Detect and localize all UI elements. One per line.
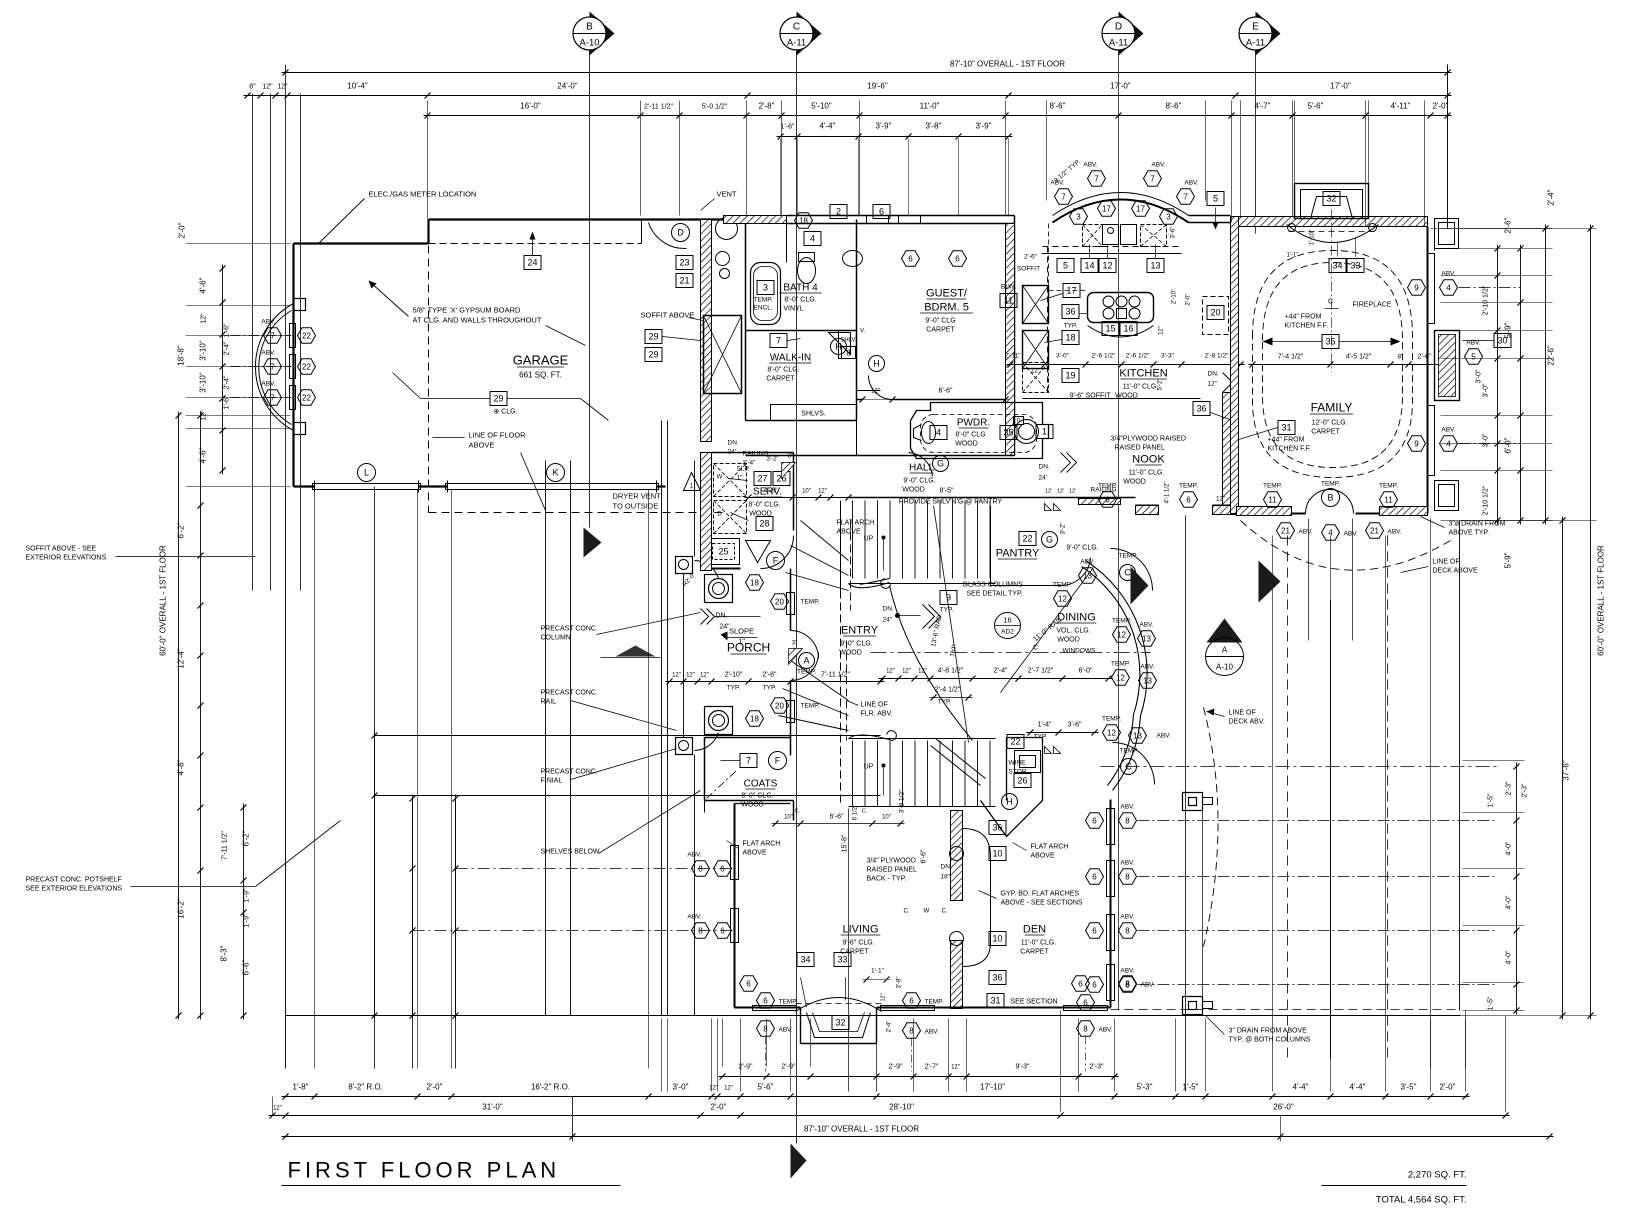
svg-text:35: 35 bbox=[1003, 428, 1013, 438]
stair rail curl upper bbox=[849, 579, 891, 589]
svg-text:ABV.: ABV. bbox=[1466, 340, 1480, 347]
svg-text:V.: V. bbox=[860, 329, 865, 335]
svg-text:TEMP.: TEMP. bbox=[1321, 481, 1340, 488]
svg-text:10: 10 bbox=[992, 934, 1002, 944]
svg-text:6'-6": 6'-6" bbox=[242, 959, 251, 975]
svg-text:12": 12" bbox=[902, 669, 911, 675]
svg-text:TEMP.: TEMP. bbox=[754, 297, 773, 304]
svg-text:C: C bbox=[793, 22, 800, 33]
guest bottom wall bbox=[857, 399, 863, 401]
svg-text:GUEST/: GUEST/ bbox=[926, 288, 968, 300]
svg-text:WOOD: WOOD bbox=[1123, 479, 1146, 486]
boxes 25 bbox=[708, 539, 740, 565]
svg-text:2'-4 1/2": 2'-4 1/2" bbox=[935, 687, 961, 694]
svg-text:3'-5": 3'-5" bbox=[1401, 1083, 1417, 1092]
svg-text:SHLV.: SHLV. bbox=[840, 338, 857, 344]
svg-text:FIRST FLOOR PLAN: FIRST FLOOR PLAN bbox=[288, 1158, 561, 1183]
svg-text:CARPET: CARPET bbox=[1020, 949, 1049, 956]
svg-text:TYP. @ BOTH COLUMNS: TYP. @ BOTH COLUMNS bbox=[1229, 1037, 1311, 1044]
svg-text:12': 12' bbox=[1069, 489, 1076, 495]
svg-text:12": 12" bbox=[273, 1106, 282, 1112]
svg-text:WOOD: WOOD bbox=[741, 802, 764, 809]
door D top bbox=[672, 224, 690, 242]
windows centerline bbox=[871, 652, 1151, 654]
svg-text:KITCHEN F.F.: KITCHEN F.F. bbox=[1285, 323, 1329, 330]
svg-text:4'-0": 4'-0" bbox=[1506, 841, 1513, 855]
svg-text:8: 8 bbox=[763, 1024, 768, 1033]
svg-text:C.: C. bbox=[862, 809, 868, 815]
svg-text:F: F bbox=[775, 756, 781, 766]
nook hexes bbox=[1099, 492, 1117, 508]
svg-text:ABV.: ABV. bbox=[687, 914, 701, 921]
svg-text:ABV.: ABV. bbox=[1344, 531, 1358, 538]
svg-text:12': 12' bbox=[1057, 489, 1064, 495]
den bottom wall bbox=[951, 1007, 1111, 1009]
svg-text:C: C bbox=[1328, 299, 1333, 306]
svg-text:LIVING: LIVING bbox=[842, 924, 878, 936]
svg-text:6: 6 bbox=[1092, 980, 1097, 989]
grid line D bbox=[1118, 50, 1120, 1011]
svg-text:C: C bbox=[1033, 645, 1038, 652]
svg-text:TEMP.: TEMP. bbox=[1263, 483, 1282, 490]
svg-text:5'-3": 5'-3" bbox=[1137, 1083, 1153, 1092]
svg-text:11: 11 bbox=[1004, 296, 1013, 306]
svg-text:PWDR.: PWDR. bbox=[957, 418, 990, 429]
svg-text:C.: C. bbox=[795, 809, 801, 815]
svg-text:8": 8" bbox=[249, 84, 256, 91]
svg-text:29: 29 bbox=[493, 394, 503, 404]
den arches bbox=[963, 829, 991, 967]
kitchen island bbox=[1088, 293, 1154, 323]
pantry walls bbox=[849, 497, 1136, 499]
svg-text:12": 12" bbox=[871, 389, 880, 395]
svg-text:16'-2" R.O.: 16'-2" R.O. bbox=[531, 1083, 570, 1092]
svg-text:UP: UP bbox=[864, 764, 874, 771]
svg-text:25: 25 bbox=[718, 547, 728, 557]
svg-text:ABV.: ABV. bbox=[1120, 804, 1134, 811]
svg-text:12": 12" bbox=[700, 673, 709, 679]
serv walls hatched bbox=[701, 453, 712, 571]
deck vertical lines right bbox=[1185, 516, 1187, 1092]
svg-text:PROVIDE SHLV'N'G @ PANTRY: PROVIDE SHLV'N'G @ PANTRY bbox=[899, 499, 1002, 506]
svg-text:12": 12" bbox=[1208, 381, 1218, 388]
svg-text:12": 12" bbox=[951, 1065, 960, 1071]
svg-text:RAIL: RAIL bbox=[541, 699, 557, 706]
dining hexes bbox=[1113, 627, 1131, 643]
svg-text:18: 18 bbox=[750, 578, 759, 587]
svg-text:6: 6 bbox=[1186, 495, 1191, 504]
pwdr enclosure bbox=[911, 403, 1049, 459]
fireplace hearth arc bbox=[1287, 225, 1379, 243]
svg-text:12: 12 bbox=[1102, 261, 1112, 271]
svg-text:3'-2": 3'-2" bbox=[1061, 523, 1067, 535]
svg-text:TYP.: TYP. bbox=[1064, 323, 1078, 330]
svg-text:4: 4 bbox=[936, 428, 941, 438]
svg-text:1'-8": 1'-8" bbox=[293, 1083, 309, 1092]
black triangle right of dining bbox=[1259, 561, 1281, 603]
svg-text:G: G bbox=[1046, 535, 1053, 545]
svg-text:FAMILY: FAMILY bbox=[1311, 401, 1353, 415]
svg-text:13: 13 bbox=[1142, 634, 1151, 643]
svg-text:18: 18 bbox=[1065, 333, 1075, 343]
svg-text:TEMP.: TEMP. bbox=[779, 999, 798, 1006]
svg-text:FLR. ABV.: FLR. ABV. bbox=[861, 711, 893, 718]
svg-text:W: W bbox=[717, 475, 723, 481]
svg-text:ABV.: ABV. bbox=[1140, 664, 1154, 671]
svg-text:4'-4": 4'-4" bbox=[1350, 1083, 1366, 1092]
below family hexes bbox=[1277, 523, 1295, 539]
svg-text:3'-8 1/2": 3'-8 1/2" bbox=[899, 789, 906, 813]
svg-text:3": 3" bbox=[788, 454, 793, 460]
svg-text:5'-2": 5'-2" bbox=[1158, 379, 1164, 391]
svg-text:ABV.: ABV. bbox=[1157, 733, 1171, 740]
svg-text:8'-5": 8'-5" bbox=[940, 488, 954, 495]
svg-text:8: 8 bbox=[1125, 979, 1130, 988]
kitchen lower counter bbox=[1023, 398, 1201, 400]
svg-text:13: 13 bbox=[1150, 261, 1160, 271]
svg-text:K: K bbox=[552, 468, 558, 478]
svg-text:1'-9": 1'-9" bbox=[244, 913, 251, 927]
svg-text:B: B bbox=[1327, 493, 1333, 503]
walkin bbox=[770, 334, 787, 348]
svg-text:9'-0" CLG: 9'-0" CLG bbox=[925, 318, 955, 325]
svg-text:22: 22 bbox=[302, 331, 311, 340]
svg-text:23: 23 bbox=[679, 258, 689, 268]
svg-text:19'-6": 19'-6" bbox=[867, 82, 888, 91]
svg-text:12": 12" bbox=[1216, 497, 1225, 503]
svg-text:36: 36 bbox=[1065, 307, 1075, 317]
svg-text:7: 7 bbox=[270, 362, 275, 371]
garage right wall hatched bbox=[701, 220, 712, 442]
svg-text:ABV.: ABV. bbox=[1151, 162, 1165, 169]
svg-text:36: 36 bbox=[1196, 404, 1206, 414]
svg-text:6'-6": 6'-6" bbox=[830, 814, 844, 821]
svg-text:6'-0": 6'-0" bbox=[1504, 437, 1513, 453]
svg-text:1: 1 bbox=[1042, 427, 1047, 437]
svg-text:2'-10 1/2": 2'-10 1/2" bbox=[1483, 485, 1490, 515]
potshelf hexes bbox=[231, 335, 292, 337]
svg-text:2'-4": 2'-4" bbox=[994, 668, 1008, 675]
svg-text:6: 6 bbox=[1092, 872, 1097, 881]
svg-text:8: 8 bbox=[698, 926, 703, 935]
svg-text:4'-8 1/2": 4'-8 1/2" bbox=[938, 668, 964, 675]
svg-text:TEMP.: TEMP. bbox=[797, 669, 816, 676]
svg-text:8'-0" CLG.: 8'-0" CLG. bbox=[741, 793, 773, 800]
svg-text:3" DRAIN FROM ABOVE: 3" DRAIN FROM ABOVE bbox=[1229, 1028, 1308, 1035]
svg-text:KITCHEN: KITCHEN bbox=[1119, 368, 1167, 380]
hatch wedge 3in bbox=[789, 649, 803, 665]
svg-text:WALK-IN: WALK-IN bbox=[770, 353, 811, 364]
svg-text:WOOD: WOOD bbox=[839, 650, 862, 657]
svg-text:60'-0" OVERALL - 1ST FLOOR: 60'-0" OVERALL - 1ST FLOOR bbox=[159, 545, 168, 656]
door F serv bbox=[761, 536, 794, 569]
svg-text:2'-8": 2'-8" bbox=[763, 672, 777, 679]
svg-text:ABV.: ABV. bbox=[1441, 271, 1455, 278]
pantry door bbox=[1061, 558, 1091, 586]
svg-text:17'-0": 17'-0" bbox=[1110, 82, 1131, 91]
svg-text:24": 24" bbox=[883, 617, 893, 624]
svg-text:7: 7 bbox=[1150, 174, 1155, 183]
svg-text:3'-10": 3'-10" bbox=[199, 340, 208, 361]
svg-text:ABV.: ABV. bbox=[1139, 622, 1153, 629]
svg-text:3'-10": 3'-10" bbox=[199, 372, 208, 393]
section cut triangle porch bbox=[616, 646, 656, 657]
svg-text:17'-10": 17'-10" bbox=[980, 1083, 1005, 1092]
svg-text:10": 10" bbox=[802, 489, 811, 495]
svg-text:FINIAL: FINIAL bbox=[541, 778, 563, 785]
black triangle near dining deck bbox=[1131, 567, 1149, 605]
svg-text:6 1/2": 6 1/2" bbox=[853, 805, 859, 820]
svg-text:2'-7": 2'-7" bbox=[925, 1064, 939, 1071]
svg-text:8'-6": 8'-6" bbox=[1050, 102, 1066, 111]
svg-text:1'-10": 1'-10" bbox=[1310, 230, 1316, 245]
svg-text:22'-6": 22'-6" bbox=[1547, 345, 1556, 366]
stair diagonal rails bbox=[931, 746, 981, 786]
svg-text:KITCHEN F.F.: KITCHEN F.F. bbox=[1268, 446, 1312, 453]
svg-text:24': 24' bbox=[728, 449, 736, 456]
svg-text:ABV.: ABV. bbox=[1441, 427, 1455, 434]
svg-text:DN.: DN. bbox=[941, 864, 952, 871]
svg-text:SEE EXTERIOR ELEVATIONS: SEE EXTERIOR ELEVATIONS bbox=[26, 886, 123, 893]
svg-text:ABV.: ABV. bbox=[1083, 162, 1097, 169]
svg-text:A: A bbox=[803, 656, 809, 666]
svg-text:LINE OF FLOOR: LINE OF FLOOR bbox=[469, 431, 527, 440]
svg-text:GARAGE: GARAGE bbox=[513, 353, 569, 368]
svg-text:BACK - TYP.: BACK - TYP. bbox=[867, 876, 907, 883]
svg-text:SLOPE: SLOPE bbox=[729, 627, 754, 636]
svg-text:11'-0": 11'-0" bbox=[920, 102, 940, 111]
svg-text:2'-6": 2'-6" bbox=[1504, 217, 1513, 233]
svg-text:ABOVE: ABOVE bbox=[1031, 853, 1055, 860]
svg-text:ABV.: ABV. bbox=[1120, 860, 1134, 867]
svg-text:20: 20 bbox=[775, 701, 784, 710]
bottom extension verticals 2 bbox=[285, 487, 287, 1069]
svg-text:5'-6": 5'-6" bbox=[758, 1083, 774, 1092]
svg-text:AT CLG. AND WALLS THROUGHOUT: AT CLG. AND WALLS THROUGHOUT bbox=[413, 316, 542, 325]
svg-text:TEMP.: TEMP. bbox=[1053, 582, 1072, 589]
svg-text:20: 20 bbox=[1210, 308, 1220, 318]
svg-text:12: 12 bbox=[1116, 673, 1125, 682]
garage walls bbox=[292, 244, 294, 487]
svg-text:D: D bbox=[677, 228, 684, 238]
bath walls bbox=[745, 224, 747, 421]
svg-text:2'-3": 2'-3" bbox=[1506, 781, 1513, 795]
svg-text:GYP. BD. FLAT ARCHES: GYP. BD. FLAT ARCHES bbox=[1001, 891, 1080, 898]
svg-text:4'-4": 4'-4" bbox=[1293, 1083, 1309, 1092]
svg-text:2'-4": 2'-4" bbox=[887, 1021, 893, 1033]
svg-text:2'-3": 2'-3" bbox=[1090, 1064, 1104, 1071]
svg-text:3": 3" bbox=[792, 641, 797, 647]
svg-text:16: 16 bbox=[1123, 324, 1133, 334]
svg-text:C.: C. bbox=[904, 909, 910, 915]
svg-text:FLAT ARCH: FLAT ARCH bbox=[1031, 844, 1069, 851]
svg-text:A-11: A-11 bbox=[1246, 38, 1265, 49]
svg-text:12': 12' bbox=[1045, 489, 1052, 495]
family right bay bbox=[1435, 331, 1460, 401]
svg-text:2'-0": 2'-0" bbox=[427, 1083, 443, 1092]
svg-text:12'-0" CLG.: 12'-0" CLG. bbox=[1311, 420, 1347, 427]
svg-text:6: 6 bbox=[720, 864, 725, 873]
svg-text:3'-6": 3'-6" bbox=[1068, 722, 1082, 729]
svg-text:36: 36 bbox=[992, 973, 1002, 983]
svg-text:6: 6 bbox=[908, 254, 913, 263]
svg-text:31'-0": 31'-0" bbox=[482, 1103, 503, 1112]
svg-text:WOOD: WOOD bbox=[955, 441, 978, 448]
svg-text:1'-5": 1'-5" bbox=[1488, 996, 1495, 1010]
svg-text:TO OUTSIDE: TO OUTSIDE bbox=[613, 502, 659, 511]
svg-text:33: 33 bbox=[837, 955, 847, 965]
svg-text:SEE DETAIL TYP.: SEE DETAIL TYP. bbox=[967, 591, 1023, 598]
living bottom wall bbox=[735, 1007, 801, 1009]
svg-text:2'-0": 2'-0" bbox=[1440, 1083, 1456, 1092]
svg-text:12": 12" bbox=[724, 1086, 733, 1092]
svg-text:BDRM. 5: BDRM. 5 bbox=[924, 302, 969, 314]
svg-text:NOOK: NOOK bbox=[1132, 454, 1165, 466]
svg-text:ABOVE TYP.: ABOVE TYP. bbox=[1449, 530, 1490, 537]
svg-text:11'-0" CLG.: 11'-0" CLG. bbox=[1129, 470, 1165, 477]
svg-text:ENTRY: ENTRY bbox=[841, 625, 879, 637]
svg-text:4'-6": 4'-6" bbox=[764, 488, 778, 495]
svg-text:16'-0": 16'-0" bbox=[520, 102, 541, 111]
svg-text:A: A bbox=[1222, 646, 1228, 655]
svg-text:18": 18" bbox=[941, 874, 951, 881]
svg-text:3'-8": 3'-8" bbox=[926, 122, 942, 131]
svg-text:6'-6": 6'-6" bbox=[921, 849, 928, 863]
svg-text:30: 30 bbox=[1497, 336, 1507, 346]
svg-text:87'-10" OVERALL - 1ST FLOOR: 87'-10" OVERALL - 1ST FLOOR bbox=[804, 1125, 919, 1134]
svg-text:12": 12" bbox=[277, 84, 288, 91]
svg-text:24: 24 bbox=[527, 258, 537, 268]
svg-text:3: 3 bbox=[1076, 212, 1081, 221]
dining curved wall bbox=[1086, 561, 1148, 791]
svg-text:DN.: DN. bbox=[715, 613, 727, 620]
svg-text:2'-10": 2'-10" bbox=[1172, 289, 1178, 304]
svg-text:LINE OF: LINE OF bbox=[1229, 710, 1256, 717]
kitchen box row bbox=[1057, 259, 1074, 273]
svg-text:LINE OF: LINE OF bbox=[861, 702, 888, 709]
svg-text:6'-2": 6'-2" bbox=[177, 522, 186, 538]
svg-text:2'-10": 2'-10" bbox=[725, 672, 743, 679]
svg-text:2,270 SQ. FT.: 2,270 SQ. FT. bbox=[1408, 1170, 1467, 1181]
svg-text:ABV.: ABV. bbox=[261, 381, 275, 388]
svg-text:C: C bbox=[1124, 568, 1131, 578]
svg-text:17: 17 bbox=[1102, 204, 1111, 213]
svg-text:CARPET: CARPET bbox=[926, 327, 955, 334]
svg-text:W: W bbox=[924, 909, 930, 915]
svg-text:11: 11 bbox=[1384, 495, 1393, 504]
svg-text:4'-0": 4'-0" bbox=[1506, 895, 1513, 909]
svg-text:3'-0": 3'-0" bbox=[1056, 353, 1070, 360]
svg-text:15'-8": 15'-8" bbox=[842, 834, 849, 852]
svg-text:RAISED PANEL: RAISED PANEL bbox=[867, 867, 918, 874]
svg-text:6: 6 bbox=[1092, 816, 1097, 825]
svg-text:ABV.: ABV. bbox=[1120, 968, 1134, 975]
svg-text:1'-1": 1'-1" bbox=[871, 968, 885, 975]
svg-text:12": 12" bbox=[672, 673, 681, 679]
wine storage bbox=[1006, 738, 1008, 801]
svg-text:ABV.: ABV. bbox=[925, 1029, 939, 1036]
svg-text:2'-3": 2'-3" bbox=[1522, 783, 1529, 797]
dining radial lines bbox=[1001, 568, 1094, 693]
svg-text:2'-6": 2'-6" bbox=[1418, 354, 1432, 361]
svg-text:18: 18 bbox=[799, 216, 808, 225]
svg-text:ABV.: ABV. bbox=[261, 350, 275, 357]
svg-text:ABV.: ABV. bbox=[261, 319, 275, 326]
svg-text:ABOVE: ABOVE bbox=[469, 441, 495, 450]
svg-text:8: 8 bbox=[1125, 816, 1130, 825]
grid marker E / A-11 bbox=[1256, 12, 1281, 56]
svg-text:ABOVE: ABOVE bbox=[743, 850, 767, 857]
svg-text:2'-0": 2'-0" bbox=[711, 1103, 727, 1112]
svg-text:3"ø DRAIN FROM: 3"ø DRAIN FROM bbox=[1449, 521, 1506, 528]
kitchen soffit dashed bbox=[1043, 246, 1182, 248]
svg-text:BLW.: BLW. bbox=[1001, 284, 1016, 291]
den wall center hatched bbox=[951, 811, 963, 901]
svg-text:CARPET: CARPET bbox=[766, 376, 795, 383]
svg-text:13: 13 bbox=[1143, 676, 1152, 685]
svg-text:87'-10" OVERALL - 1ST FLOOR: 87'-10" OVERALL - 1ST FLOOR bbox=[950, 60, 1065, 69]
svg-text:22: 22 bbox=[302, 393, 311, 402]
svg-text:8'-3": 8'-3" bbox=[220, 945, 229, 961]
svg-text:9'-6" CLG.: 9'-6" CLG. bbox=[842, 940, 874, 947]
svg-text:DN.: DN. bbox=[883, 606, 894, 613]
svg-text:A-10: A-10 bbox=[579, 38, 599, 49]
svg-text:FIREPLACE: FIREPLACE bbox=[1353, 302, 1392, 309]
svg-text:2: 2 bbox=[836, 207, 841, 217]
svg-text:24": 24" bbox=[719, 624, 730, 631]
svg-text:1'-6": 1'-6" bbox=[781, 124, 795, 131]
box 5 top right bbox=[1207, 192, 1224, 206]
svg-text:TEMP.: TEMP. bbox=[1112, 618, 1131, 625]
svg-text:DEN: DEN bbox=[1023, 924, 1046, 936]
svg-text:5: 5 bbox=[1471, 352, 1476, 361]
svg-text:12'-4": 12'-4" bbox=[177, 648, 186, 669]
svg-text:4'-6": 4'-6" bbox=[199, 447, 208, 463]
svg-text:16'-2": 16'-2" bbox=[177, 898, 186, 919]
svg-text:7: 7 bbox=[270, 393, 275, 402]
nook deck doors TEMP C bbox=[1120, 565, 1136, 581]
svg-text:8: 8 bbox=[1125, 926, 1130, 935]
svg-text:2'-7 1/2": 2'-7 1/2" bbox=[1028, 668, 1054, 675]
svg-text:31: 31 bbox=[990, 996, 1000, 1006]
svg-text:4'-5 1/2": 4'-5 1/2" bbox=[1346, 354, 1372, 361]
svg-text:2'-8 1/2": 2'-8 1/2" bbox=[1205, 353, 1229, 360]
svg-text:26: 26 bbox=[1017, 776, 1027, 786]
svg-text:6: 6 bbox=[1105, 495, 1110, 504]
svg-text:H: H bbox=[873, 359, 880, 369]
svg-text:9'-0" CLG.: 9'-0" CLG. bbox=[840, 641, 872, 648]
svg-text:5: 5 bbox=[1063, 261, 1068, 271]
svg-text:3/4"PLYWOOD RAISED: 3/4"PLYWOOD RAISED bbox=[1111, 436, 1187, 443]
svg-text:5'-9": 5'-9" bbox=[1504, 552, 1513, 568]
extension lines porch steps bbox=[545, 461, 547, 1016]
svg-text:2'-4": 2'-4" bbox=[224, 375, 231, 389]
svg-text:9'-3": 9'-3" bbox=[1016, 1064, 1030, 1071]
svg-text:RAILING: RAILING bbox=[743, 451, 769, 458]
svg-text:H: H bbox=[1006, 797, 1013, 807]
svg-text:12": 12" bbox=[918, 669, 927, 675]
left extension lines bbox=[186, 243, 291, 245]
right extension lines bbox=[1441, 228, 1553, 230]
35 dim bbox=[1322, 335, 1339, 349]
svg-text:COATS: COATS bbox=[744, 779, 778, 790]
svg-text:28'-10": 28'-10" bbox=[889, 1103, 914, 1112]
svg-text:21: 21 bbox=[1370, 526, 1379, 535]
grid marker D / A-11 bbox=[1119, 12, 1144, 56]
svg-text:12": 12" bbox=[886, 669, 895, 675]
entry left wall bbox=[790, 569, 792, 631]
svg-text:TEMP.: TEMP. bbox=[925, 999, 944, 1006]
